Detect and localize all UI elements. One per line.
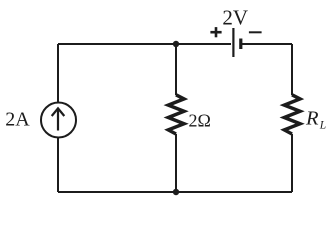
svg-text:R: R [305,107,319,129]
svg-text:2V: 2V [222,6,248,30]
svg-text:2A: 2A [5,108,30,130]
svg-text:2Ω: 2Ω [189,111,211,131]
svg-text:L: L [319,120,326,132]
